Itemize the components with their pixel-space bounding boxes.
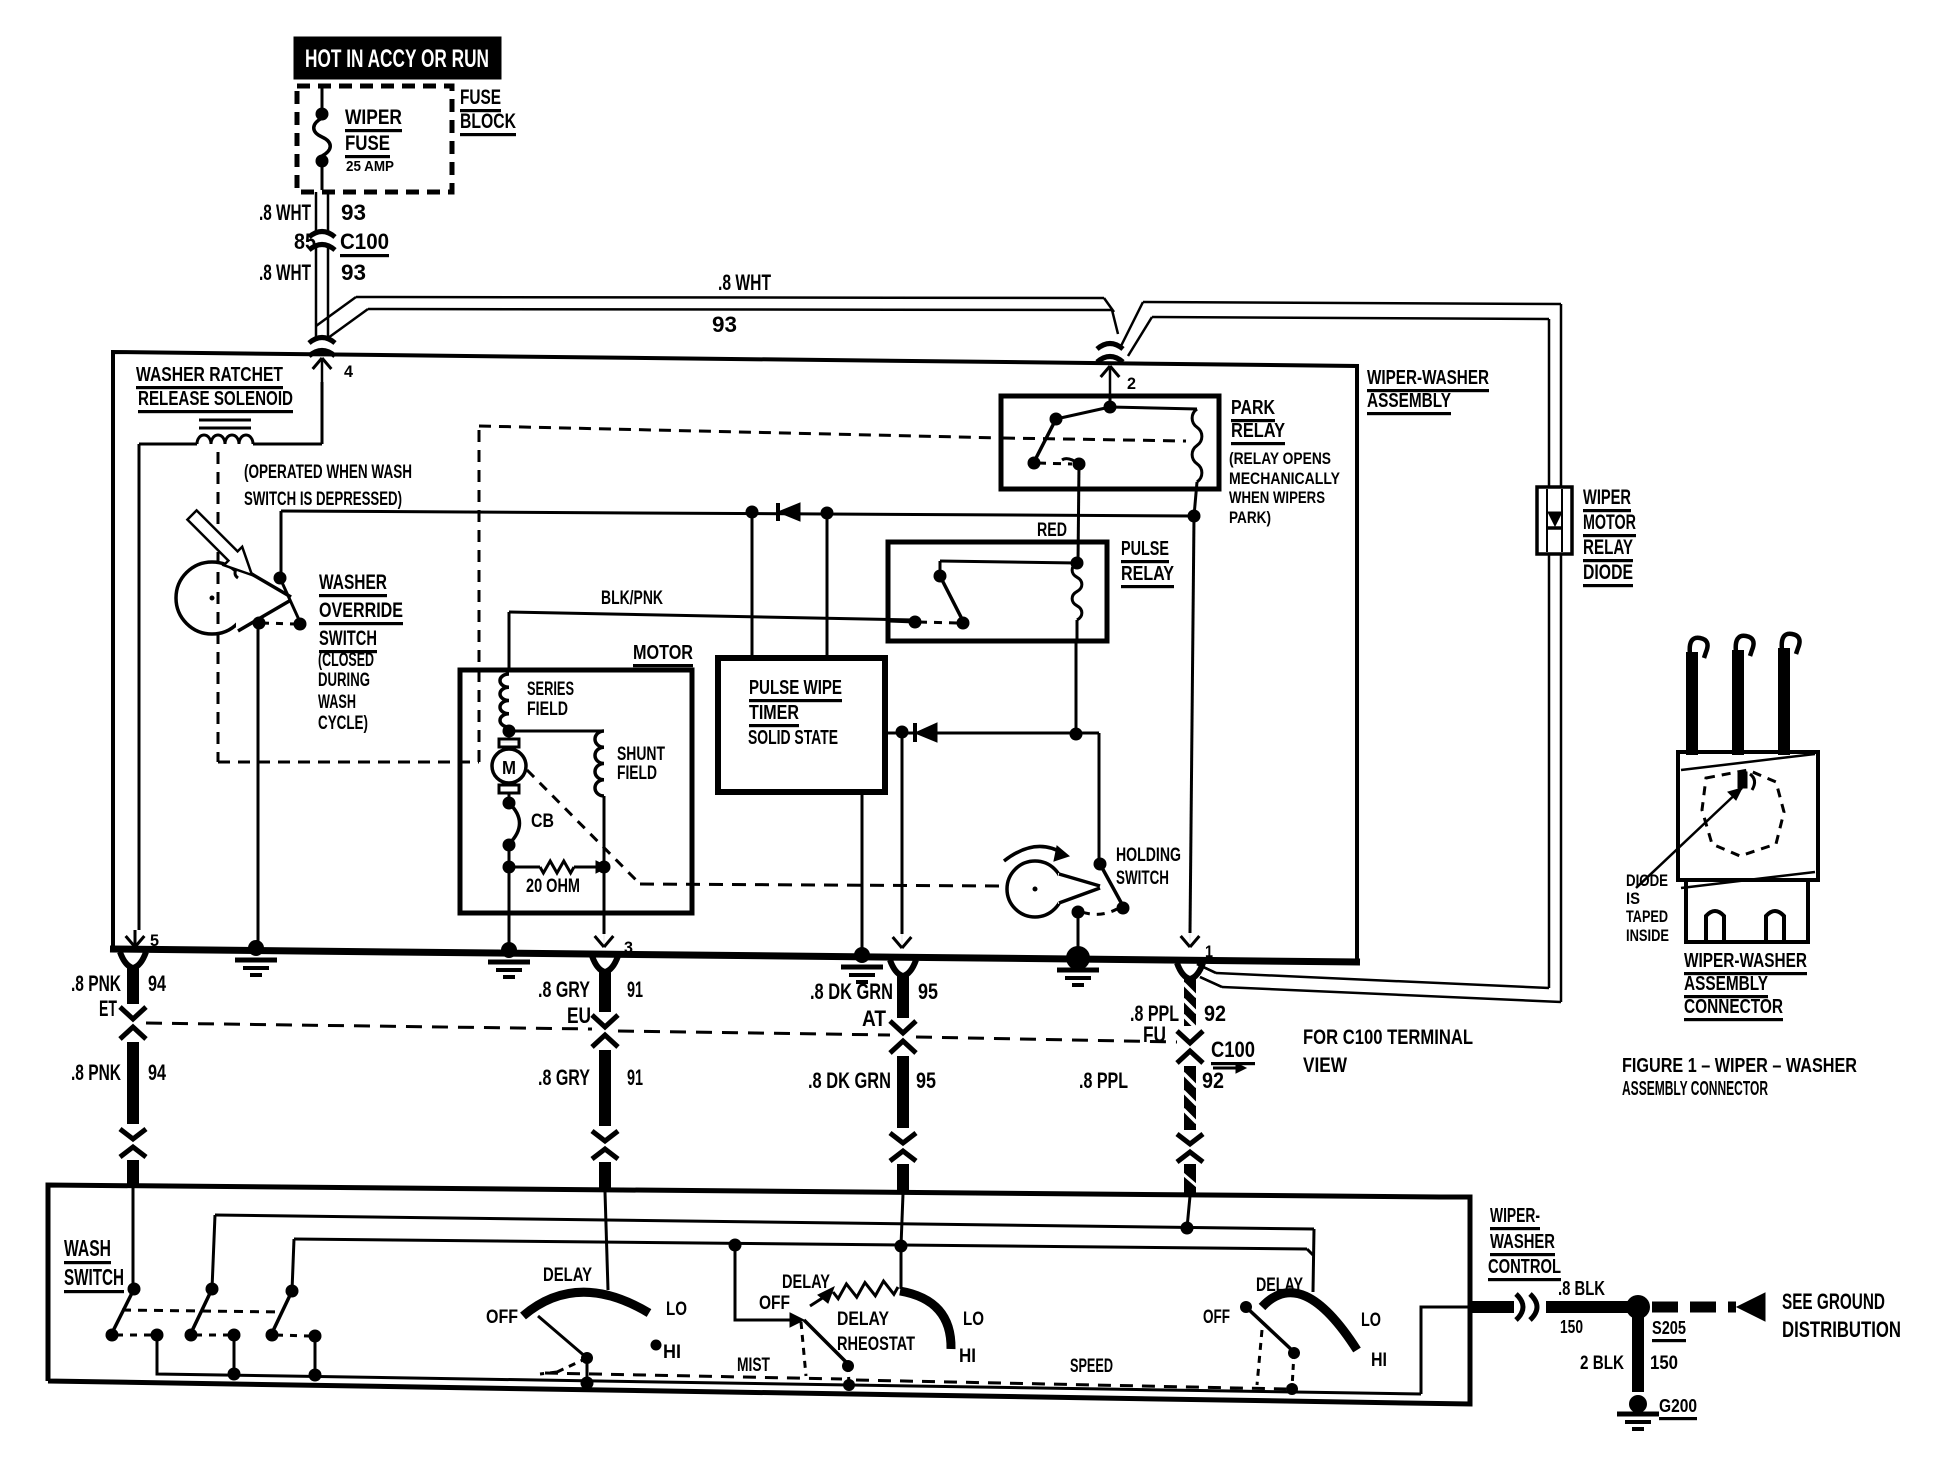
junction dot B: [821, 507, 834, 520]
ground (timer): [841, 965, 883, 970]
svg-text:PULSE: PULSE: [1121, 538, 1169, 560]
connector body: [1678, 752, 1818, 880]
splice S205: [1626, 1295, 1650, 1319]
svg-text:DELAY: DELAY: [837, 1309, 889, 1330]
wire .8 GRY lower: [599, 1050, 611, 1126]
wire solenoid to terminal 5: [138, 444, 141, 930]
wire .8 WHT long horizontal (left segment): [356, 297, 1104, 298]
dashed wire to ground distribution: [1652, 1302, 1736, 1313]
washer override cam: [176, 562, 248, 634]
wire PPL into control box: [1187, 1196, 1190, 1228]
svg-text:AT: AT: [862, 1006, 886, 1031]
junction dot on bus (override): [248, 940, 264, 956]
svg-text:WASH: WASH: [64, 1235, 111, 1261]
svg-text:SWITCH IS DEPRESSED): SWITCH IS DEPRESSED): [244, 489, 402, 510]
wire line1 to delay arc3: [1313, 1229, 1314, 1292]
wire holding switch to ground: [1077, 912, 1080, 956]
power label HOT IN ACCY OR RUN: [294, 37, 501, 79]
wire terminal 4 to solenoid: [321, 382, 324, 444]
ground (washer override): [235, 958, 277, 963]
delay arc 2: [900, 1291, 951, 1349]
svg-text:92: 92: [1204, 1001, 1226, 1026]
wire GRY to delay arc1: [600, 1290, 608, 1292]
wiper-washer control box: [48, 1185, 1470, 1404]
circuit breaker CB: [503, 797, 516, 810]
actuation arrow (hollow): [187, 510, 252, 575]
fuse block dashed box: [297, 86, 452, 192]
svg-text:.8 DK GRN: .8 DK GRN: [808, 1068, 891, 1093]
svg-text:DELAY: DELAY: [543, 1265, 592, 1286]
svg-text:WIPER: WIPER: [345, 106, 402, 129]
svg-text:PARK): PARK): [1229, 508, 1271, 527]
svg-text:LO: LO: [1361, 1310, 1381, 1331]
svg-text:.8 WHT: .8 WHT: [718, 270, 771, 295]
svg-text:150: 150: [1650, 1353, 1678, 1374]
svg-text:DURING: DURING: [318, 670, 370, 691]
connector prong 3: [1778, 648, 1790, 755]
resistor 20 OHM: [509, 866, 540, 869]
solenoid L1 coil: [197, 435, 253, 444]
delay arc 1: [523, 1292, 649, 1316]
wash switch pole 3: [286, 1285, 299, 1298]
svg-text:FUSE: FUSE: [460, 86, 501, 109]
terminal 1 arrow: [1181, 936, 1190, 947]
connector C100 arcs at terminal 4: [309, 338, 335, 344]
connector exit chevrons: [1516, 1294, 1523, 1320]
svg-text:OVERRIDE: OVERRIDE: [319, 599, 403, 622]
svg-text:.8 PNK: .8 PNK: [71, 1060, 121, 1085]
svg-text:CONNECTOR: CONNECTOR: [1684, 996, 1783, 1018]
diode pointer arrow: [1636, 788, 1742, 888]
pulse wipe timer box: [718, 658, 885, 792]
wire line2 to OFF contact 2: [735, 1245, 790, 1320]
svg-text:RED: RED: [1037, 520, 1067, 541]
svg-text:SWITCH: SWITCH: [64, 1264, 124, 1290]
terminal 2 arrow: [1101, 366, 1110, 377]
svg-text:91: 91: [627, 977, 643, 1002]
svg-text:FIGURE 1 – WIPER – WASHER: FIGURE 1 – WIPER – WASHER: [1622, 1055, 1857, 1077]
wire series to shunt: [509, 730, 604, 733]
terminal DK GRN arrow: [893, 937, 902, 948]
svg-text:BLK/PNK: BLK/PNK: [601, 588, 663, 609]
junction dot line2/DK GRN: [895, 1240, 908, 1253]
svg-text:C100: C100: [1211, 1037, 1255, 1062]
svg-text:WASHER: WASHER: [1490, 1231, 1555, 1253]
svg-text:.8 GRY: .8 GRY: [538, 977, 590, 1002]
dashed link inside park relay: [1003, 438, 1186, 441]
svg-text:85: 85: [294, 229, 316, 254]
ground (motor): [488, 960, 530, 965]
wire rail drop to timer pin1: [751, 512, 754, 658]
wire PNK into wash switch: [132, 1188, 135, 1289]
svg-text:RELAY: RELAY: [1121, 563, 1175, 585]
wire solenoid left lead: [139, 443, 197, 446]
holding switch contacts: [1094, 858, 1107, 871]
ground (holding switch): [1057, 968, 1099, 973]
pulse relay box: [888, 542, 1107, 641]
diode D1 on rail: [776, 503, 780, 521]
svg-text:94: 94: [148, 1060, 167, 1085]
wiper motor relay diode box: [1537, 487, 1572, 554]
svg-text:.8 DK GRN: .8 DK GRN: [810, 979, 893, 1004]
svg-text:2 BLK: 2 BLK: [1580, 1353, 1624, 1374]
HI contact dot (group1): [651, 1340, 662, 1351]
wire junction to holding switch: [1098, 733, 1101, 863]
svg-text:25 AMP: 25 AMP: [346, 158, 394, 175]
svg-text:WASHER: WASHER: [319, 571, 387, 594]
wiper arm 3: [1246, 1307, 1294, 1352]
svg-text:PARK: PARK: [1231, 397, 1275, 419]
svg-text:PULSE WIPE: PULSE WIPE: [749, 677, 842, 699]
svg-text:91: 91: [627, 1065, 643, 1090]
wire fuse top: [321, 88, 324, 112]
wire DK GRN to rheostat: [900, 1246, 903, 1289]
wire pole2 riser to line1: [212, 1215, 215, 1289]
pulse relay coil: [1072, 563, 1082, 620]
junction dot on bus (holding): [1066, 946, 1090, 970]
wire BLK/PNK into pulse relay: [888, 621, 915, 622]
svg-text:RELEASE SOLENOID: RELEASE SOLENOID: [138, 388, 293, 410]
svg-text:(RELAY OPENS: (RELAY OPENS: [1229, 449, 1331, 468]
terminal 4 arrow: [313, 358, 322, 369]
motor box: [460, 670, 692, 913]
svg-text:FIELD: FIELD: [617, 763, 657, 784]
connector (bus) GRY: [592, 956, 618, 972]
junction dot on bus (timer): [854, 947, 870, 963]
svg-text:SERIES: SERIES: [527, 679, 574, 700]
svg-text:ASSEMBLY CONNECTOR: ASSEMBLY CONNECTOR: [1622, 1078, 1768, 1100]
wiper-washer assembly box: [113, 352, 1357, 960]
svg-text:1: 1: [1205, 942, 1213, 961]
wire timer output: [885, 732, 1099, 735]
wire common to exit: [1421, 1307, 1468, 1394]
svg-text:ASSEMBLY: ASSEMBLY: [1367, 390, 1451, 412]
svg-text:FUSE: FUSE: [345, 132, 390, 155]
diode D2: [913, 723, 917, 742]
fuse F1 WIPER FUSE 25 AMP: [316, 108, 329, 121]
wire solenoid right lead: [253, 443, 322, 446]
solenoid core bars: [199, 419, 251, 422]
svg-text:2: 2: [1127, 374, 1136, 393]
svg-text:SWITCH: SWITCH: [319, 627, 377, 650]
svg-text:5: 5: [150, 931, 159, 950]
park relay switch: [1050, 413, 1063, 426]
svg-text:93: 93: [341, 200, 366, 225]
svg-text:150: 150: [1560, 1317, 1583, 1337]
wire pulse relay coil bottom: [1076, 620, 1079, 641]
connector (bus) PNK: [120, 952, 146, 968]
svg-text:SHUNT: SHUNT: [617, 744, 665, 765]
terminal 3 arrow: [595, 936, 604, 947]
svg-text:HI: HI: [1371, 1350, 1387, 1371]
motor M armature: [498, 741, 520, 743]
wire .8 DK GRN lower: [897, 1056, 909, 1128]
park relay box: [1001, 396, 1219, 489]
svg-text:WIPER: WIPER: [1583, 486, 1631, 509]
wire shunt to terminal 3: [603, 796, 606, 934]
wire GRY to control box: [599, 1162, 611, 1192]
svg-text:92: 92: [1202, 1068, 1224, 1093]
svg-text:DISTRIBUTION: DISTRIBUTION: [1782, 1317, 1901, 1342]
wire override lower contact to ground: [257, 624, 260, 946]
svg-text:WIPER-WASHER: WIPER-WASHER: [1684, 950, 1807, 972]
svg-text:TAPED: TAPED: [1626, 907, 1668, 926]
wash switch pole 1: [128, 1283, 141, 1296]
svg-text:S205: S205: [1652, 1318, 1686, 1338]
OFF contact dot (group3): [1240, 1301, 1252, 1313]
connector lower body: [1686, 880, 1808, 942]
svg-text:INSIDE: INSIDE: [1626, 926, 1669, 945]
svg-text:DIODE: DIODE: [1583, 561, 1633, 584]
svg-text:LO: LO: [666, 1299, 687, 1320]
wiper arm 2: [804, 1320, 848, 1364]
connector inline PPL: [1177, 1134, 1203, 1144]
svg-text:.8 PPL: .8 PPL: [1079, 1068, 1128, 1093]
junction dot PPL/line1: [1181, 1222, 1194, 1235]
svg-text:VIEW: VIEW: [1303, 1054, 1347, 1077]
dashed link solenoid to cam: [217, 452, 220, 762]
svg-text:DELAY: DELAY: [782, 1272, 830, 1293]
wire park coil junction down to terminal 1: [1190, 516, 1194, 933]
svg-text:OFF: OFF: [1203, 1307, 1230, 1328]
svg-text:TIMER: TIMER: [749, 702, 799, 724]
junction dot rail/park coil: [1188, 510, 1201, 523]
svg-text:.8 BLK: .8 BLK: [1558, 1278, 1605, 1300]
svg-text:MOTOR: MOTOR: [633, 642, 693, 664]
svg-text:LO: LO: [963, 1309, 984, 1330]
shunt field coil: [595, 731, 604, 796]
svg-text:95: 95: [916, 1068, 936, 1093]
connector (bus) PPL: [1177, 963, 1203, 979]
svg-text:SEE GROUND: SEE GROUND: [1782, 1289, 1885, 1314]
wire terminal 2 into relay: [1109, 396, 1112, 407]
wire PPL to control box: [1184, 1164, 1196, 1196]
pulse relay switch: [939, 561, 942, 576]
svg-text:FU: FU: [1143, 1022, 1166, 1047]
wire .8 WHT fuse to C100: [315, 192, 318, 234]
wire blk/pnk riser: [508, 612, 511, 670]
wire .8 WHT long horizontal (right segment): [1143, 302, 1561, 304]
connector C100 (top): [309, 232, 335, 238]
svg-text:M: M: [502, 758, 516, 778]
svg-text:4: 4: [344, 362, 354, 381]
wire 2 BLK 150: [1632, 1313, 1644, 1392]
svg-text:(CLOSED: (CLOSED: [318, 650, 374, 671]
connector prong 2: [1732, 650, 1744, 755]
svg-text:ET: ET: [99, 996, 117, 1021]
terminal 5 arrow: [126, 936, 135, 947]
wire .8 PPL lower (hatched): [1184, 1066, 1196, 1130]
wire BLK/PNK: [508, 612, 510, 620]
svg-text:CONTROL: CONTROL: [1488, 1256, 1561, 1278]
junction dot timer out: [896, 726, 909, 739]
connector (bus) DK GRN: [890, 960, 916, 976]
wire diode to ppl (double line): [1548, 554, 1551, 988]
wire override switch to top rail: [280, 511, 283, 578]
pulse relay coil top junction: [1071, 557, 1084, 570]
wash switch pole 2: [206, 1283, 219, 1296]
svg-text:MECHANICALLY: MECHANICALLY: [1229, 469, 1341, 488]
wire .8 WHT below C100: [315, 247, 318, 338]
wire CB to bus: [508, 845, 511, 948]
svg-text:SOLID STATE: SOLID STATE: [748, 727, 838, 749]
junction dot on bus (motor): [501, 942, 517, 958]
svg-text:HI: HI: [663, 1342, 681, 1363]
svg-text:(OPERATED WHEN WASH: (OPERATED WHEN WASH: [244, 462, 412, 483]
wire GRY into control box: [605, 1192, 608, 1290]
off-page arrow (ground distribution): [1737, 1293, 1765, 1321]
svg-text:.8 GRY: .8 GRY: [538, 1065, 590, 1090]
svg-text:MOTOR: MOTOR: [1583, 511, 1636, 534]
svg-text:94: 94: [148, 971, 167, 996]
taped diode (dashed outline): [1702, 770, 1784, 856]
svg-text:ASSEMBLY: ASSEMBLY: [1684, 973, 1768, 995]
junction dot A: [746, 506, 759, 519]
wire park relay contact down (RED): [1078, 464, 1079, 563]
connector C100 EU: [592, 1015, 618, 1027]
wire .8 WHT branch diagonal: [316, 297, 356, 326]
wire park relay top rail: [1110, 407, 1197, 409]
svg-text:EU: EU: [567, 1003, 591, 1028]
junction dot park relay top: [1104, 401, 1117, 414]
diode D3 (relay diode): [1548, 512, 1562, 526]
wire .8 WHT right vertical to diode: [1560, 304, 1563, 487]
wire pulse relay coil to junction: [1075, 641, 1078, 734]
connector C100 ET: [120, 1007, 146, 1019]
wiper arm 1: [581, 1352, 593, 1364]
connector inline DK GRN: [890, 1133, 916, 1143]
dashed link motor to holding switch: [527, 770, 640, 884]
bus wire (assembly bottom): [110, 949, 1360, 962]
junction dot resistor tap: [503, 861, 516, 874]
svg-text:CYCLE): CYCLE): [318, 713, 368, 734]
connector arcs at terminal 2: [1097, 344, 1123, 350]
holding switch cam: [1007, 861, 1063, 917]
svg-text:WASH: WASH: [318, 692, 356, 713]
svg-text:WHEN WIPERS: WHEN WIPERS: [1229, 488, 1325, 507]
svg-text:HOT IN ACCY OR RUN: HOT IN ACCY OR RUN: [305, 45, 489, 73]
series field coil: [500, 674, 509, 727]
wire wash switch common: [157, 1372, 1421, 1394]
junction dot pulse relay drop: [1070, 728, 1083, 741]
dashed MIST line: [545, 1373, 842, 1379]
svg-text:93: 93: [341, 260, 366, 285]
svg-text:SWITCH: SWITCH: [1116, 868, 1169, 889]
wire PNK to control box: [127, 1160, 139, 1188]
svg-text:DIODE: DIODE: [1626, 871, 1668, 890]
junction dot series/shunt: [503, 725, 516, 738]
wire .8 DK GRN upper: [897, 976, 909, 1018]
connector C100 FU: [1177, 1031, 1203, 1043]
svg-text:OFF: OFF: [486, 1307, 518, 1328]
wire pole3 riser to line2: [292, 1239, 294, 1291]
svg-text:C100: C100: [340, 229, 389, 254]
ground G200: [1629, 1395, 1647, 1413]
svg-text:WIPER-WASHER: WIPER-WASHER: [1367, 367, 1489, 389]
delay arc 3: [1262, 1293, 1357, 1350]
wire .8 PPL upper (hatched): [1184, 978, 1196, 1026]
washer override switch contacts: [274, 572, 287, 585]
svg-text:BLOCK: BLOCK: [460, 110, 516, 133]
wire .8 PNK upper: [127, 968, 139, 1004]
wire .8 BLK exit: [1470, 1301, 1514, 1313]
junction dot line2/group2-off: [729, 1239, 742, 1252]
connector inline PNK: [120, 1129, 146, 1139]
svg-text:.8 WHT: .8 WHT: [259, 260, 311, 285]
delay rheostat zigzag: [833, 1281, 898, 1299]
svg-text:SPEED: SPEED: [1070, 1356, 1113, 1377]
svg-text:IS: IS: [1626, 889, 1640, 908]
svg-text:FOR C100 TERMINAL: FOR C100 TERMINAL: [1303, 1026, 1473, 1049]
connector inline GRY: [592, 1131, 618, 1141]
wire DK GRN into control box: [901, 1194, 903, 1246]
svg-text:.8 WHT: .8 WHT: [259, 200, 311, 225]
svg-text:95: 95: [918, 979, 938, 1004]
holding switch rotation arrow: [1004, 846, 1064, 861]
wire DK GRN to control box: [897, 1164, 909, 1194]
svg-text:G200: G200: [1659, 1396, 1697, 1416]
wire rail drop to timer pin2: [826, 513, 829, 658]
svg-text:WASHER RATCHET: WASHER RATCHET: [136, 364, 283, 386]
svg-text:RHEOSTAT: RHEOSTAT: [837, 1334, 915, 1355]
dashed C100 bulkhead line: [146, 1023, 592, 1029]
wire jog at connector 2: [1104, 298, 1114, 312]
svg-text:MIST: MIST: [737, 1355, 770, 1376]
dashed gang link wash switch: [122, 1310, 282, 1312]
svg-text:OFF: OFF: [759, 1293, 790, 1314]
svg-text:HOLDING: HOLDING: [1116, 845, 1181, 866]
svg-text:CB: CB: [531, 811, 554, 832]
park relay coil: [1192, 409, 1202, 482]
wire .8 PNK lower: [127, 1042, 139, 1124]
wire .8 GRY upper: [599, 972, 611, 1012]
connector prong 1: [1686, 652, 1698, 755]
svg-text:HI: HI: [959, 1346, 976, 1367]
svg-text:.8 PNK: .8 PNK: [71, 971, 121, 996]
wire armature to CB: [508, 793, 511, 802]
connector C100 AT: [890, 1021, 916, 1033]
svg-text:FIELD: FIELD: [527, 699, 568, 720]
wire park coil to washer rail: [1194, 482, 1197, 516]
wire PPL branch diagonals: [1197, 964, 1216, 973]
svg-text:WIPER-: WIPER-: [1490, 1205, 1540, 1227]
svg-text:RELAY: RELAY: [1231, 420, 1286, 442]
svg-text:20 OHM: 20 OHM: [526, 876, 580, 897]
svg-text:93: 93: [712, 312, 737, 337]
svg-text:RELAY: RELAY: [1583, 536, 1633, 559]
wire top rail (to park relay coil): [281, 511, 1194, 516]
wire .8 BLK to S205: [1546, 1301, 1630, 1313]
wire timer case ground: [861, 792, 864, 953]
wire timer out down to bus: [901, 732, 904, 934]
svg-text:3: 3: [624, 938, 633, 957]
